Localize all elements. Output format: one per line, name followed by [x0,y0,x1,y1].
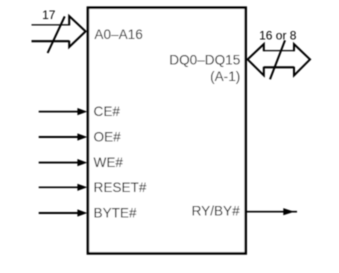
RY/BY# arrowhead [283,208,294,215]
svg-text:16 or 8: 16 or 8 [259,29,297,43]
svg-text:CE#: CE# [94,104,121,119]
OE# input wire [39,136,80,138]
svg-text:WE#: WE# [94,155,124,170]
svg-text:DQ0–DQ15: DQ0–DQ15 [169,53,240,68]
svg-text:BYTE#: BYTE# [94,206,138,221]
BYTE# arrowhead [77,209,87,216]
RESET# input wire [39,186,80,188]
bus slash (data) [270,40,285,79]
bus slash (address) [48,16,65,53]
RY/BY# output wire [247,211,298,213]
OE# arrowhead [77,133,87,140]
CE# arrowhead [77,108,87,115]
chip body U1 [88,8,246,254]
svg-text:OE#: OE# [94,130,122,145]
svg-text:17: 17 [42,8,56,22]
CE# input wire [39,111,80,113]
BYTE# input wire [39,212,80,214]
data bus double block arrow (DQ) [248,44,310,75]
RESET# arrowhead [77,184,87,191]
svg-text:RY/BY#: RY/BY# [192,203,241,218]
svg-text:(A-1): (A-1) [210,69,240,84]
WE# arrowhead [77,159,87,166]
WE# input wire [39,162,80,164]
address bus block arrow (A0-A16) [32,16,86,47]
svg-text:RESET#: RESET# [94,180,147,195]
svg-text:A0–A16: A0–A16 [94,27,142,42]
